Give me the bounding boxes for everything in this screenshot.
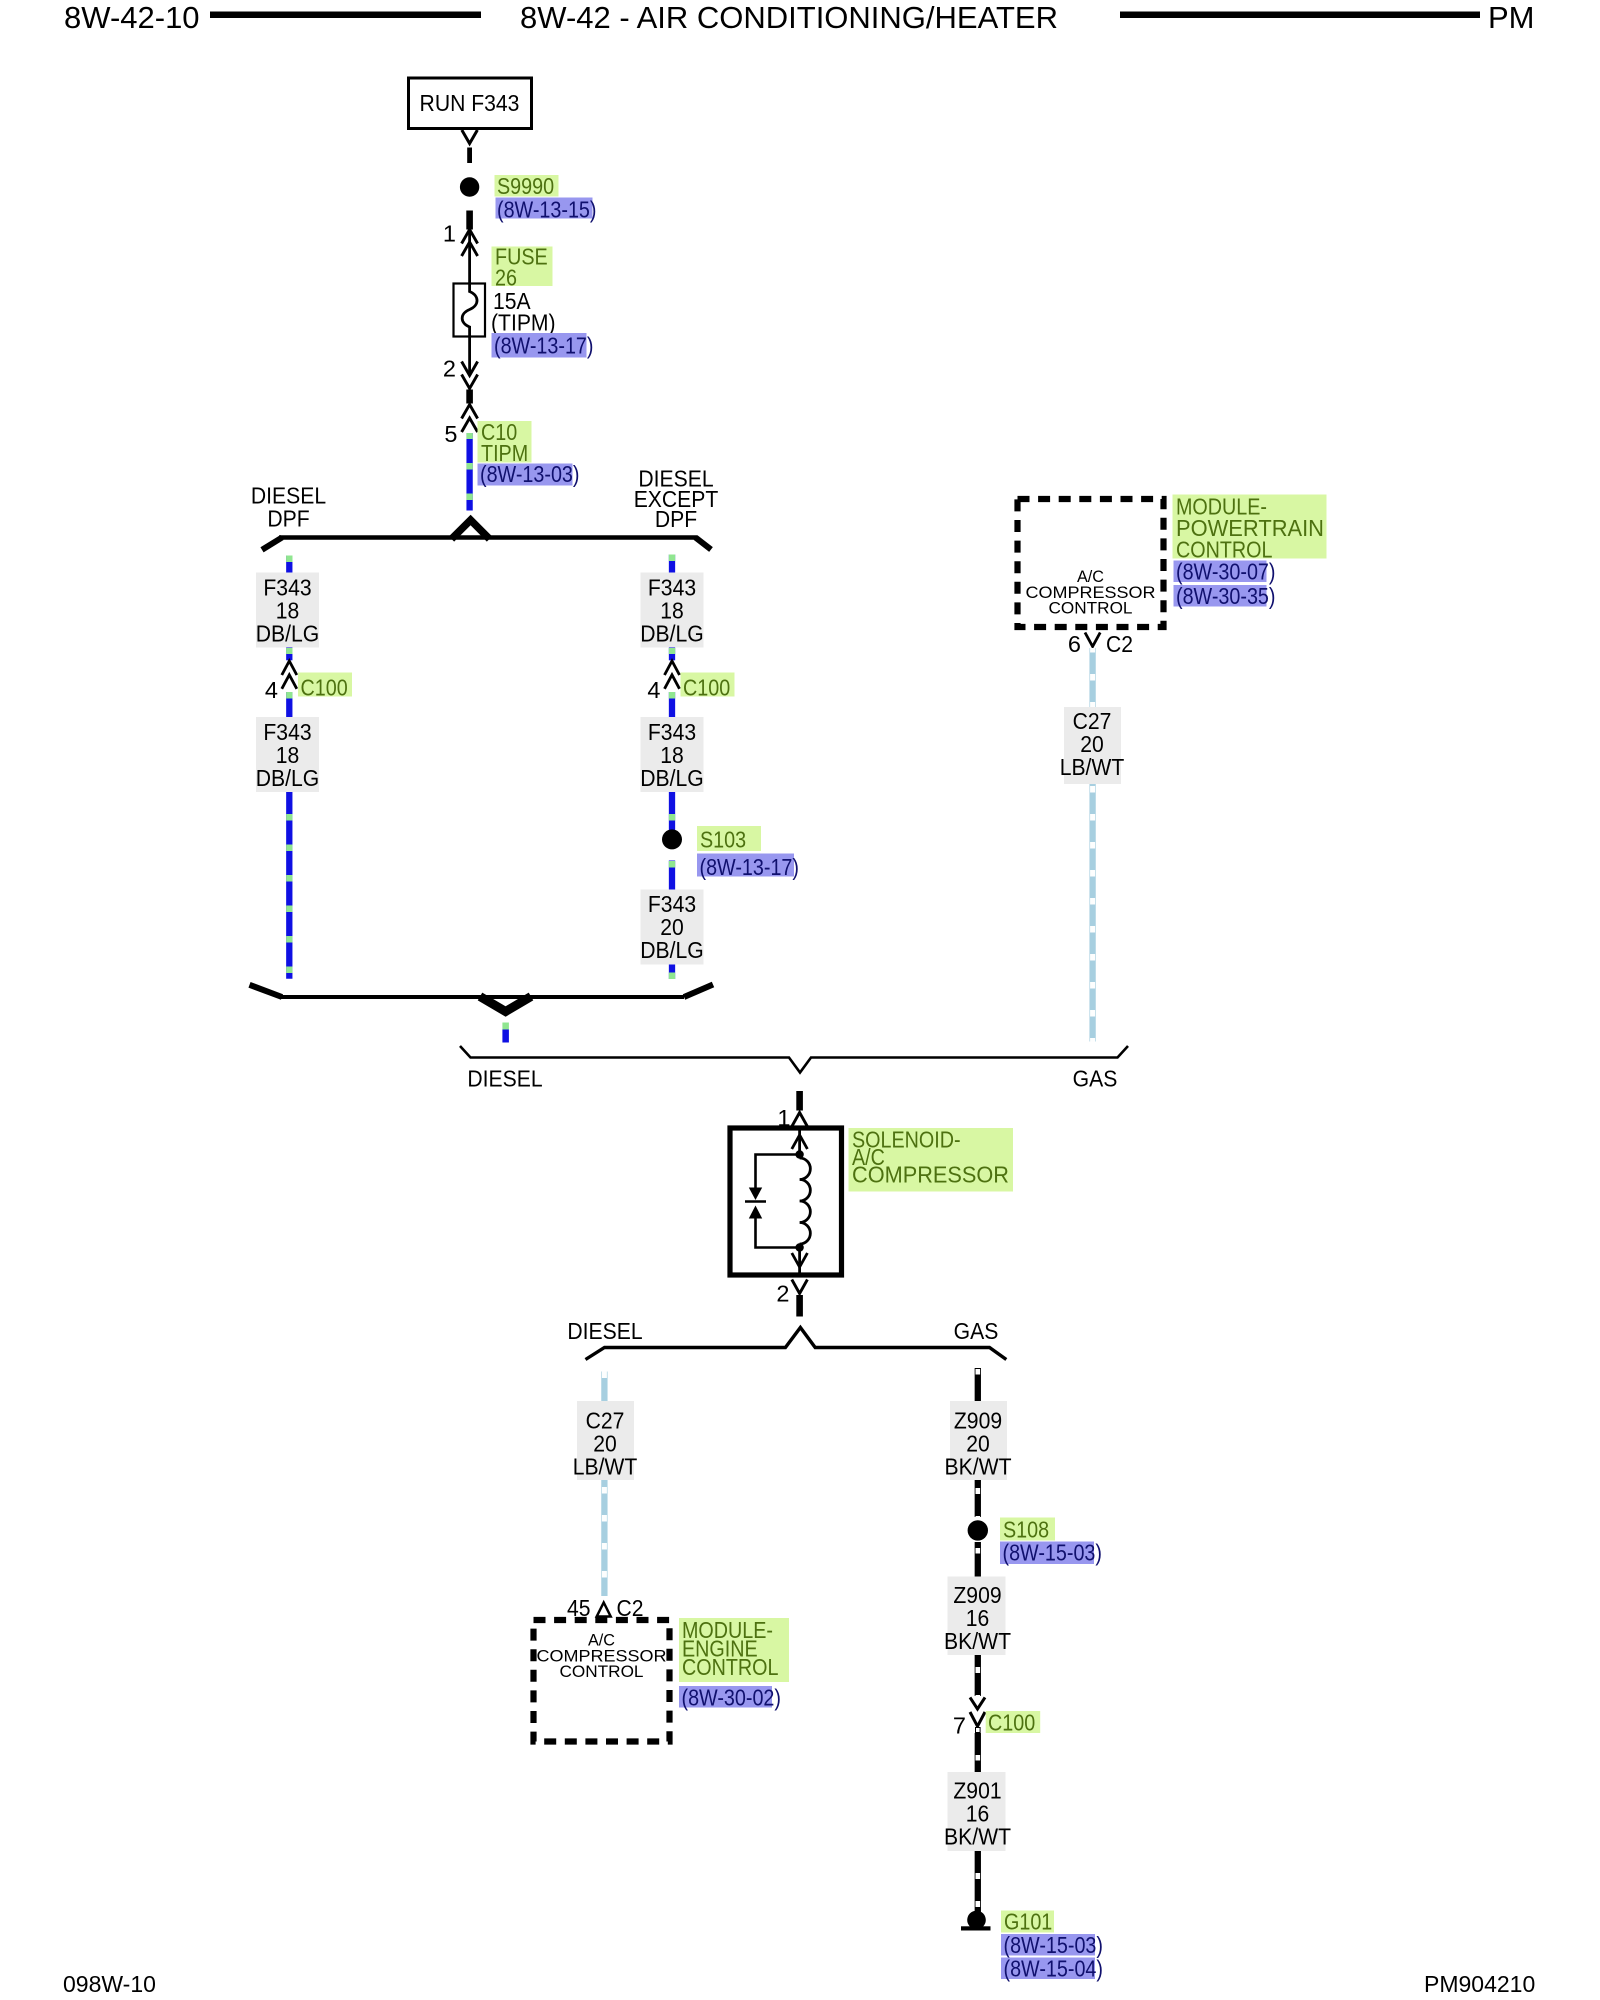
junction node bottom bbox=[795, 1243, 803, 1251]
connector C100 right chevrons bbox=[665, 661, 680, 689]
svg-text:C2: C2 bbox=[1106, 631, 1133, 657]
svg-text:GAS: GAS bbox=[1073, 1066, 1118, 1092]
connector C10 chevrons bbox=[462, 405, 478, 433]
svg-text:CONTROL: CONTROL bbox=[682, 1654, 779, 1680]
svg-text:2: 2 bbox=[776, 1281, 789, 1307]
svg-text:(8W-13-03): (8W-13-03) bbox=[480, 461, 580, 487]
svg-text:DB/LG: DB/LG bbox=[256, 765, 320, 791]
wire segment to C100 left bbox=[286, 648, 292, 661]
svg-text:RUN F343: RUN F343 bbox=[420, 90, 520, 116]
label SOLENOID-A/C COMPRESSOR bbox=[849, 1127, 1014, 1192]
wire C27 20 LB/WT from PCM bbox=[1089, 648, 1095, 1042]
svg-text:C100: C100 bbox=[683, 675, 730, 701]
value label F343 18 DB/LG left first bbox=[256, 573, 320, 648]
svg-text:2: 2 bbox=[443, 356, 456, 382]
branch label DIESEL DPF bbox=[251, 483, 326, 532]
svg-text:BK/WT: BK/WT bbox=[944, 1628, 1011, 1654]
svg-text:PM: PM bbox=[1488, 0, 1535, 35]
label S9990 bbox=[495, 173, 559, 199]
wire Z901 upper segment bbox=[976, 1728, 981, 1773]
wire F343 DB/LG below C10 bbox=[466, 433, 472, 511]
label S103 bbox=[697, 826, 761, 853]
wire Z909 to S108 bbox=[975, 1480, 981, 1517]
solenoid pin 1 chevron bbox=[792, 1113, 808, 1127]
ECM C2 terminal triangle bbox=[597, 1603, 611, 1617]
wire C27 LB/WT to ECM bbox=[601, 1480, 607, 1596]
coil L of solenoid bbox=[800, 1158, 811, 1244]
label G101 bbox=[1001, 1909, 1054, 1935]
label MODULE-POWERTRAIN CONTROL bbox=[1173, 494, 1327, 563]
split brace diesel-dpf / diesel-except-dpf bbox=[262, 520, 711, 550]
svg-text:DIESEL: DIESEL bbox=[467, 1066, 542, 1092]
clamp diode D1 bbox=[745, 1188, 766, 1219]
wire F343 18 DB/LG right upper segment bbox=[669, 555, 675, 577]
split below solenoid DIESEL / GAS bbox=[586, 1328, 1007, 1360]
wire F343 18 DB/LG left long run bbox=[286, 692, 292, 979]
svg-text:DPF: DPF bbox=[267, 506, 309, 532]
wire below S108 bbox=[976, 1542, 981, 1577]
svg-text:COMPRESSOR: COMPRESSOR bbox=[852, 1162, 1009, 1188]
svg-text:(8W-13-17): (8W-13-17) bbox=[494, 333, 594, 359]
wire Z909 20 BK/WT upper segment bbox=[976, 1368, 981, 1401]
value label Z909 16 BK/WT bbox=[944, 1577, 1011, 1656]
svg-text:7: 7 bbox=[953, 1713, 966, 1739]
svg-text:098W-10: 098W-10 bbox=[63, 1971, 156, 1997]
svg-text:LB/WT: LB/WT bbox=[573, 1454, 638, 1480]
label (8W-30-35) bbox=[1174, 583, 1276, 609]
connector C100 left chevrons bbox=[282, 661, 297, 689]
svg-text:BK/WT: BK/WT bbox=[944, 1824, 1011, 1850]
svg-text:G101: G101 bbox=[1004, 1909, 1052, 1935]
wire segment to merge brace right bbox=[669, 965, 675, 980]
label (8W-30-02) bbox=[679, 1685, 781, 1711]
value label F343 18 DB/LG right first bbox=[640, 573, 704, 648]
svg-text:(8W-30-07): (8W-30-07) bbox=[1176, 559, 1276, 585]
splice S103 bbox=[662, 829, 682, 849]
label C100 left bbox=[298, 673, 352, 701]
svg-text:(8W-15-03): (8W-15-03) bbox=[1003, 1540, 1103, 1566]
svg-text:DB/LG: DB/LG bbox=[640, 937, 704, 963]
clamp diode branch wires bbox=[756, 1155, 800, 1248]
fuse F26 body bbox=[454, 284, 486, 337]
value label Z909 20 BK/WT bbox=[945, 1401, 1012, 1480]
wire segment to C100 right bbox=[669, 648, 675, 661]
svg-text:8W-42-10: 8W-42-10 bbox=[64, 0, 200, 35]
svg-text:(8W-30-02): (8W-30-02) bbox=[682, 1685, 782, 1711]
svg-text:6: 6 bbox=[1068, 631, 1081, 657]
splice S9990 bbox=[460, 177, 479, 196]
branch label DIESEL EXCEPT DPF bbox=[634, 466, 719, 533]
svg-text:C100: C100 bbox=[301, 675, 348, 701]
module PCM dashed box bbox=[1018, 499, 1164, 627]
wire stub above C10 bbox=[466, 390, 473, 404]
bracket splitting DIESEL / GAS feeds bbox=[460, 1046, 1128, 1073]
label (8W-13-17) S103 bbox=[697, 854, 799, 881]
svg-text:CONTROL: CONTROL bbox=[1049, 599, 1133, 618]
connector chevron below RUN F343 bbox=[462, 130, 478, 144]
label MODULE-ENGINE CONTROL bbox=[679, 1617, 789, 1682]
label (8W-15-03) G101 bbox=[1001, 1932, 1103, 1958]
value label F343 18 DB/LG right second bbox=[640, 717, 704, 792]
fuse terminal chevrons top bbox=[462, 230, 478, 257]
svg-text:CONTROL: CONTROL bbox=[560, 1662, 644, 1681]
power node RUN F343 box bbox=[409, 78, 532, 129]
splice S108 bbox=[968, 1520, 988, 1540]
ECM inner text A/C COMPRESSOR CONTROL bbox=[537, 1631, 667, 1682]
wire segment above S103 bbox=[669, 692, 675, 830]
svg-text:BK/WT: BK/WT bbox=[945, 1454, 1012, 1480]
ground G101 bbox=[961, 1911, 991, 1931]
svg-text:4: 4 bbox=[265, 677, 278, 703]
svg-text:8W-42 - AIR CONDITIONING/HEATE: 8W-42 - AIR CONDITIONING/HEATER bbox=[520, 0, 1058, 35]
connector C100 lower chevrons bbox=[970, 1697, 985, 1726]
svg-text:DPF: DPF bbox=[655, 506, 697, 532]
svg-text:S103: S103 bbox=[700, 827, 746, 853]
label S108 bbox=[1000, 1517, 1055, 1543]
label C10 TIPM bbox=[478, 419, 532, 466]
solenoid A/C compressor box bbox=[730, 1128, 842, 1275]
solenoid internal bottom arrow bbox=[792, 1248, 808, 1273]
solenoid internal top arrow bbox=[792, 1131, 808, 1155]
wire F343 18 DB/LG left upper segment bbox=[286, 556, 292, 577]
svg-text:1: 1 bbox=[443, 221, 456, 247]
wire stub from RUN F343 bbox=[467, 148, 472, 164]
label (8W-15-03) S108 bbox=[1000, 1540, 1102, 1566]
value label C27 20 LB/WT left bbox=[573, 1401, 638, 1480]
label (8W-13-15) bbox=[496, 197, 597, 223]
merge brace diesel branches bbox=[250, 985, 714, 1012]
PCM C2 terminal chevron bbox=[1085, 633, 1100, 647]
wire stub below merge brace bbox=[502, 1023, 509, 1043]
svg-text:PM904210: PM904210 bbox=[1424, 1971, 1535, 1997]
svg-text:5: 5 bbox=[444, 421, 457, 447]
svg-text:(8W-13-15): (8W-13-15) bbox=[497, 197, 597, 223]
header rule right bbox=[1120, 12, 1480, 19]
fuse terminal chevrons bottom bbox=[462, 362, 478, 389]
svg-text:DB/LG: DB/LG bbox=[640, 765, 704, 791]
svg-text:4: 4 bbox=[647, 677, 660, 703]
svg-text:S9990: S9990 bbox=[497, 173, 554, 199]
label FUSE 26 bbox=[492, 244, 553, 291]
svg-text:(8W-30-35): (8W-30-35) bbox=[1176, 583, 1276, 609]
label C100 right bbox=[681, 673, 735, 701]
label (8W-30-07) bbox=[1174, 559, 1276, 585]
value label F343 20 DB/LG bbox=[640, 890, 704, 965]
svg-text:(8W-15-04): (8W-15-04) bbox=[1004, 1956, 1104, 1982]
label C100 lower bbox=[986, 1710, 1040, 1736]
svg-text:(8W-13-17): (8W-13-17) bbox=[700, 854, 800, 880]
solenoid pin 2 chevron bbox=[792, 1280, 808, 1294]
wire C27 LB/WT upper segment left bbox=[602, 1372, 607, 1402]
module ECM dashed box bbox=[534, 1620, 670, 1742]
PCM inner text A/C COMPRESSOR CONTROL bbox=[1026, 567, 1156, 618]
wire stub below S9990 bbox=[466, 211, 473, 230]
wire F343 20 DB/LG below S103 bbox=[669, 861, 675, 890]
wire Z909 16 to C100 bbox=[975, 1655, 981, 1696]
svg-text:(8W-15-03): (8W-15-03) bbox=[1004, 1932, 1104, 1958]
value label Z901 16 BK/WT bbox=[944, 1772, 1011, 1851]
value label F343 18 DB/LG left second bbox=[256, 717, 320, 792]
label (8W-13-03) bbox=[478, 461, 580, 487]
svg-text:DB/LG: DB/LG bbox=[640, 621, 704, 647]
svg-text:DB/LG: DB/LG bbox=[256, 621, 320, 647]
wire through fuse bbox=[468, 231, 471, 284]
value label C27 20 LB/WT right bbox=[1060, 707, 1125, 784]
wire stub below solenoid bbox=[796, 1295, 803, 1317]
junction node top bbox=[795, 1150, 803, 1158]
label (8W-13-17) fuse bbox=[492, 333, 594, 359]
label (8W-15-04) G101 bbox=[1001, 1956, 1103, 1982]
wire Z901 to ground bbox=[975, 1851, 981, 1912]
svg-text:GAS: GAS bbox=[954, 1318, 999, 1344]
svg-text:DIESEL: DIESEL bbox=[567, 1318, 642, 1344]
svg-text:LB/WT: LB/WT bbox=[1060, 754, 1125, 780]
wire stub above solenoid pin 1 bbox=[796, 1091, 803, 1111]
svg-text:C100: C100 bbox=[988, 1710, 1035, 1736]
svg-text:26: 26 bbox=[495, 265, 517, 291]
header rule left bbox=[210, 12, 481, 19]
